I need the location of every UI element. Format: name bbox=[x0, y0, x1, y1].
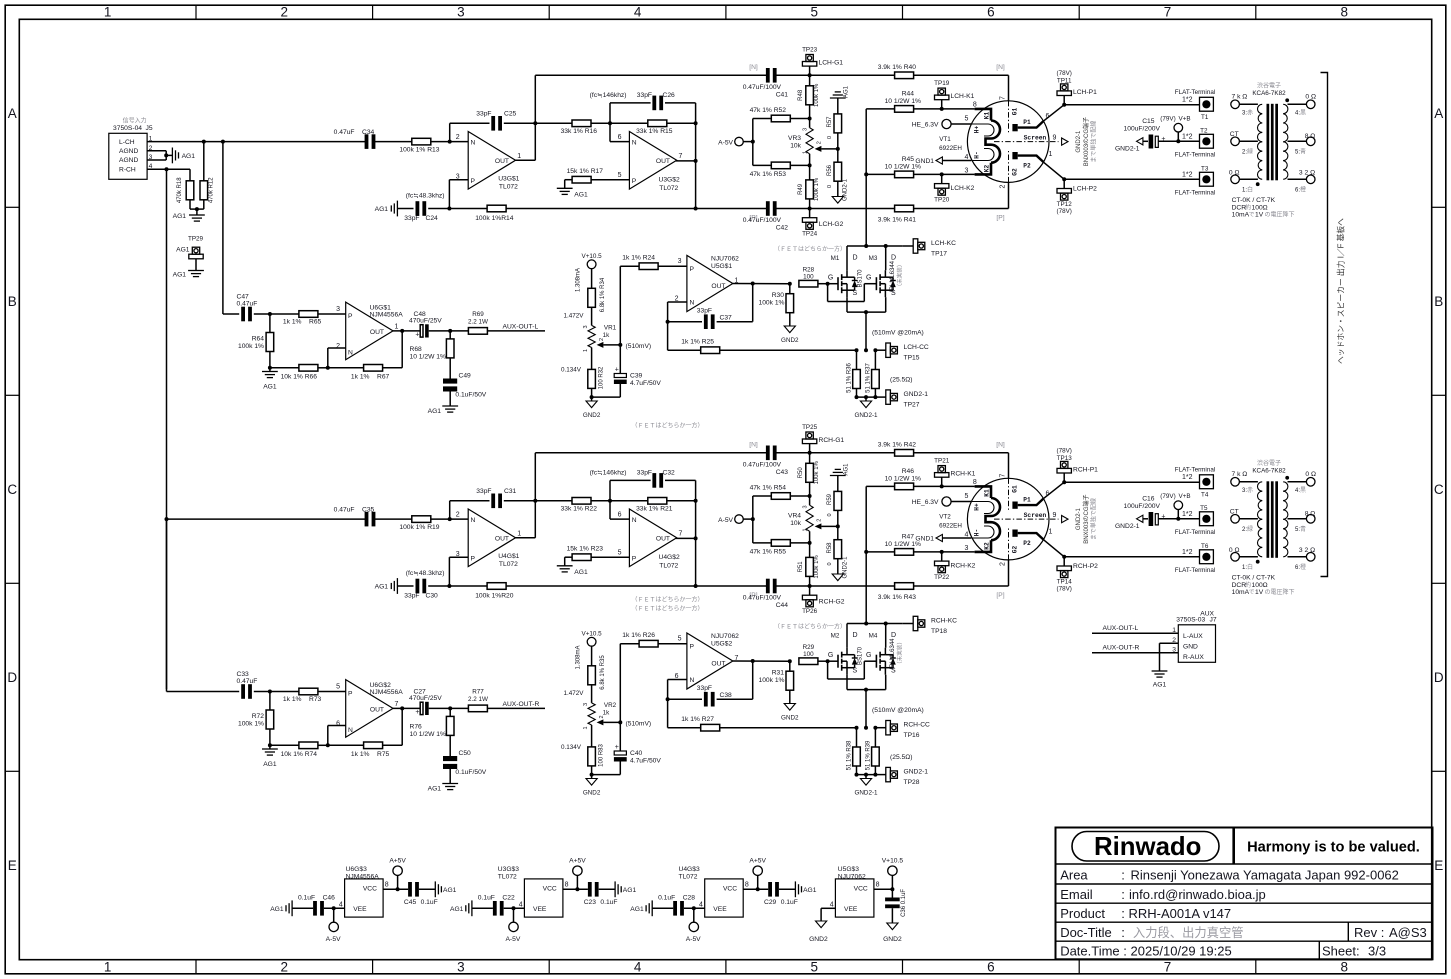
svg-text:R77: R77 bbox=[472, 688, 484, 695]
svg-text:GND1: GND1 bbox=[915, 536, 934, 543]
svg-text:0.47uF/100V: 0.47uF/100V bbox=[743, 84, 782, 91]
svg-text:RCH-CC: RCH-CC bbox=[904, 722, 931, 729]
svg-text:LCH-KC: LCH-KC bbox=[931, 240, 956, 247]
wire NJU out bbox=[733, 282, 792, 286]
wire [P] rail bbox=[696, 182, 1009, 221]
svg-text:AG1: AG1 bbox=[623, 887, 637, 894]
resistor R41 3.9k bbox=[878, 205, 917, 223]
svg-text:Date.Time : 2025/10/29 19:25: Date.Time : 2025/10/29 19:25 bbox=[1060, 943, 1232, 958]
capacitor C37 33pF bbox=[668, 284, 753, 330]
ground GND2-1 bias bbox=[832, 556, 848, 581]
svg-text:T2: T2 bbox=[1200, 127, 1208, 134]
svg-text:6.8k 1% R35: 6.8k 1% R35 bbox=[600, 655, 606, 690]
resistor R27 1k feedback bbox=[668, 716, 857, 731]
svg-text:33pF: 33pF bbox=[637, 92, 652, 99]
svg-text:2: 2 bbox=[1000, 562, 1007, 566]
annotation FET either gray bbox=[774, 245, 846, 253]
svg-text:G: G bbox=[828, 652, 833, 659]
svg-text:1: 1 bbox=[1049, 529, 1053, 536]
svg-text:33pF: 33pF bbox=[637, 469, 652, 476]
resistor R37 51 bbox=[866, 350, 913, 397]
capacitor C30 33pF input gnd bbox=[375, 570, 487, 600]
svg-text:0: 0 bbox=[827, 136, 833, 139]
svg-text:ヘッドホン・スピーカー 出力 I／F 基板へ: ヘッドホン・スピーカー 出力 I／F 基板へ bbox=[1336, 218, 1346, 364]
svg-text:H+: H+ bbox=[974, 503, 981, 511]
svg-text:8: 8 bbox=[973, 479, 977, 486]
svg-text:1: 1 bbox=[583, 349, 589, 352]
svg-text:3: 3 bbox=[803, 505, 809, 508]
svg-text:0.1uF/50V: 0.1uF/50V bbox=[455, 391, 486, 398]
supply A-5V at U6G$3 bbox=[326, 908, 341, 943]
testpoint TP16 RCH-CC rail bbox=[855, 707, 931, 739]
ground GND2 left of U5G$3 bbox=[809, 908, 835, 943]
svg-text:N: N bbox=[471, 517, 476, 524]
svg-text:TP27: TP27 bbox=[904, 402, 920, 409]
wire opamp2 out to [P] rail bbox=[676, 501, 698, 588]
svg-text:M2: M2 bbox=[831, 633, 840, 640]
svg-text:7 k Ω: 7 k Ω bbox=[1232, 471, 1248, 478]
svg-text:: RRH-A001A v147: : RRH-A001A v147 bbox=[1121, 906, 1231, 921]
svg-text:BS170: BS170 bbox=[858, 646, 864, 665]
svg-text:8: 8 bbox=[876, 882, 880, 889]
svg-text:A-5V: A-5V bbox=[326, 936, 341, 943]
svg-text:VR3: VR3 bbox=[788, 135, 801, 142]
svg-text:C36 0.1uF: C36 0.1uF bbox=[901, 889, 907, 917]
svg-text:OUT: OUT bbox=[370, 707, 384, 714]
svg-text:P: P bbox=[632, 556, 637, 563]
svg-text:8: 8 bbox=[973, 101, 977, 108]
wire J5 pins 2,3 to AG1 bbox=[147, 151, 172, 160]
svg-text:2: 2 bbox=[1000, 184, 1007, 188]
svg-text:OUT: OUT bbox=[711, 661, 725, 668]
svg-text:(79V): (79V) bbox=[1160, 493, 1175, 500]
resistor R48 100k bbox=[798, 75, 820, 120]
ground GND2 right of U5G$3 bbox=[883, 923, 902, 943]
title block bbox=[1056, 828, 1433, 960]
svg-text:+: + bbox=[615, 366, 619, 373]
svg-text:100k 1%: 100k 1% bbox=[238, 721, 264, 728]
svg-text:0.47uF/100V: 0.47uF/100V bbox=[743, 595, 782, 602]
svg-text:A: A bbox=[8, 106, 17, 121]
svg-text:TL072: TL072 bbox=[499, 184, 518, 191]
svg-text:GND2: GND2 bbox=[781, 715, 799, 722]
svg-text:8: 8 bbox=[385, 882, 389, 889]
svg-text:AG1: AG1 bbox=[450, 906, 464, 913]
supply A-5V bias bbox=[718, 119, 755, 166]
resistor R49 100k bbox=[798, 165, 820, 208]
svg-text:FLAT-Terminal: FLAT-Terminal bbox=[1175, 190, 1215, 197]
svg-text:AG1: AG1 bbox=[263, 384, 277, 391]
svg-text:TL072: TL072 bbox=[679, 873, 698, 880]
svg-text:7: 7 bbox=[1000, 473, 1007, 477]
testpoint TP15 LCH-CC rail bbox=[855, 330, 929, 362]
svg-text:R56: R56 bbox=[827, 164, 833, 176]
svg-text:100Ω: 100Ω bbox=[1252, 204, 1268, 211]
svg-text:0 Ω: 0 Ω bbox=[1305, 94, 1316, 101]
resistor R19 100k bbox=[399, 516, 439, 531]
title block text rows bbox=[1060, 868, 1427, 959]
wire gate jog M1-M3 bbox=[828, 661, 866, 679]
svg-text:N: N bbox=[348, 727, 353, 734]
svg-text:0: 0 bbox=[827, 513, 833, 516]
svg-text:1: 1 bbox=[1049, 151, 1053, 158]
testpoint TP27 GND2-1 bbox=[855, 390, 929, 409]
svg-text:0.134V: 0.134V bbox=[561, 744, 582, 751]
supply A+5V at U4G$3 bbox=[743, 857, 768, 891]
transistor M2 BS170 bbox=[828, 632, 864, 675]
svg-text:TP22: TP22 bbox=[934, 574, 950, 581]
svg-text:1.472V: 1.472V bbox=[564, 313, 585, 320]
svg-text:3.9k 1% R43: 3.9k 1% R43 bbox=[878, 594, 917, 601]
svg-text:NJM4556A: NJM4556A bbox=[346, 873, 380, 880]
testpoint TP28 GND2-1 bbox=[855, 767, 929, 786]
svg-text:+: + bbox=[615, 744, 619, 751]
svg-text:M3: M3 bbox=[869, 255, 878, 262]
svg-text:TP13: TP13 bbox=[1057, 455, 1073, 462]
svg-text:(fc≒146khz): (fc≒146khz) bbox=[590, 470, 627, 477]
svg-text:10 1/2W 1%: 10 1/2W 1% bbox=[410, 731, 446, 738]
svg-text:100k 1%: 100k 1% bbox=[814, 460, 820, 484]
svg-text:100 R83: 100 R83 bbox=[598, 743, 604, 766]
ground AG1 aux bbox=[262, 368, 278, 391]
svg-text:N: N bbox=[690, 677, 695, 684]
svg-text:GND2-1: GND2-1 bbox=[1076, 507, 1082, 530]
op-amp U5G$1 NJU7062 bbox=[675, 255, 740, 311]
svg-text:P1: P1 bbox=[1023, 119, 1031, 126]
svg-text:RCH-K2: RCH-K2 bbox=[951, 563, 976, 570]
svg-text:3: 3 bbox=[583, 325, 589, 328]
svg-text:9: 9 bbox=[1053, 134, 1057, 141]
wire J5 pin4 R-CH down-rail bbox=[147, 167, 190, 689]
resistor R44 10 1/2W bbox=[866, 91, 974, 113]
svg-text:VR2: VR2 bbox=[604, 702, 617, 709]
svg-text:NJM4556A: NJM4556A bbox=[370, 311, 404, 318]
svg-text:470uF/25V: 470uF/25V bbox=[409, 695, 442, 702]
svg-text:0.47uF: 0.47uF bbox=[237, 678, 258, 685]
capacitor C33 0.47uF aux bbox=[167, 519, 272, 699]
testpoint TP22 RCH-K2 bbox=[934, 552, 976, 581]
svg-text:0.47uF/100V: 0.47uF/100V bbox=[743, 462, 782, 469]
svg-text:橙: 橙 bbox=[1300, 186, 1306, 194]
testpoint TP18 RCH-KC bbox=[903, 616, 957, 635]
svg-text:BS170: BS170 bbox=[858, 269, 864, 288]
resistor R14 100k feedback bbox=[475, 205, 695, 222]
svg-text:（ＦＥＴはどちらか一方）: （ＦＥＴはどちらか一方） bbox=[631, 605, 703, 613]
svg-text:TP23: TP23 bbox=[802, 46, 818, 53]
svg-text:2.2 1W: 2.2 1W bbox=[468, 696, 488, 703]
testpoint TP11 LCH-P1 bbox=[1056, 70, 1097, 105]
svg-text:N: N bbox=[471, 139, 476, 146]
testpoint TP23 LCH-G1 bbox=[802, 46, 843, 75]
svg-text:1: 1 bbox=[104, 960, 112, 975]
op-amp U3G$1 TL072 bbox=[456, 132, 522, 191]
svg-text:1k 1% R27: 1k 1% R27 bbox=[681, 716, 714, 723]
svg-text:33pF: 33pF bbox=[476, 488, 491, 495]
svg-text:BNX003のCG端子: BNX003のCG端子 bbox=[1082, 117, 1090, 166]
svg-text:R28: R28 bbox=[803, 267, 815, 274]
resistor R34 6.8k bbox=[564, 268, 606, 325]
svg-text:GND2-1: GND2-1 bbox=[1115, 146, 1140, 153]
wire input rail to C35 bbox=[167, 517, 469, 521]
svg-text:100k 1%R14: 100k 1%R14 bbox=[475, 215, 514, 222]
svg-text:1*2: 1*2 bbox=[1182, 172, 1193, 179]
testpoint TP25 RCH-G1 bbox=[802, 424, 844, 453]
svg-text:3.9k 1% R42: 3.9k 1% R42 bbox=[878, 441, 917, 448]
svg-text:8: 8 bbox=[1340, 960, 1348, 975]
ground AG1 right of U4G$3 bbox=[795, 881, 816, 897]
svg-text:緑: 緑 bbox=[1247, 148, 1253, 156]
svg-text:1*2: 1*2 bbox=[1182, 134, 1193, 141]
svg-text:入力段、出力真空管: 入力段、出力真空管 bbox=[1133, 925, 1244, 940]
svg-text:0.1uF/50V: 0.1uF/50V bbox=[455, 769, 486, 776]
svg-text:1k 1% R24: 1k 1% R24 bbox=[622, 255, 655, 262]
svg-text:5: 5 bbox=[964, 116, 968, 123]
svg-text:FLAT-Terminal: FLAT-Terminal bbox=[1175, 466, 1215, 473]
svg-text:7: 7 bbox=[395, 701, 399, 708]
wire opamp1 P input jog bbox=[447, 557, 468, 588]
svg-text:0 Ω: 0 Ω bbox=[1229, 170, 1240, 177]
svg-text:T1: T1 bbox=[1201, 114, 1209, 121]
transistor M4 IRLML6344 bbox=[866, 632, 904, 675]
svg-text:U4G$2: U4G$2 bbox=[659, 554, 680, 561]
svg-text:1: 1 bbox=[583, 726, 589, 729]
svg-text:HE_6.3V: HE_6.3V bbox=[912, 122, 939, 129]
svg-text:(fc≒146khz): (fc≒146khz) bbox=[590, 92, 627, 99]
svg-text:100k 1%: 100k 1% bbox=[814, 83, 820, 107]
svg-text:NJM4556A: NJM4556A bbox=[370, 689, 404, 696]
bracket headphone speaker output IF bbox=[1321, 73, 1346, 577]
svg-text:4: 4 bbox=[964, 154, 968, 161]
svg-text:H-: H- bbox=[974, 529, 981, 536]
svg-text:C41: C41 bbox=[776, 92, 789, 99]
svg-text:赤: 赤 bbox=[1247, 487, 1253, 494]
svg-text:6.8k 1% R34: 6.8k 1% R34 bbox=[600, 277, 606, 312]
resistor R74 10k bbox=[270, 742, 330, 758]
resistor R23 15k to AG1 bbox=[557, 545, 630, 576]
resistor R53 47k bbox=[750, 162, 810, 178]
svg-text:U5G$3: U5G$3 bbox=[838, 866, 859, 873]
terminal T6 FLAT bbox=[1064, 543, 1215, 574]
svg-text:GND2-1: GND2-1 bbox=[1115, 523, 1140, 530]
svg-text:2: 2 bbox=[817, 141, 823, 144]
svg-text:E: E bbox=[8, 858, 17, 873]
wire [P] rail bbox=[696, 560, 1009, 599]
supply V+B 79V bbox=[1160, 493, 1190, 519]
svg-text:VR4: VR4 bbox=[788, 513, 801, 520]
svg-text:1: 1 bbox=[517, 153, 521, 160]
testpoint TP14 RCH-P2 bbox=[1056, 557, 1098, 593]
resistor R31 100k bbox=[758, 661, 799, 721]
svg-text:R47: R47 bbox=[902, 534, 915, 541]
svg-text:AG1: AG1 bbox=[428, 408, 442, 415]
wire plate P1 to TP13 bbox=[1044, 480, 1066, 498]
svg-text:U6G$3: U6G$3 bbox=[346, 866, 367, 873]
svg-text:U4G$1: U4G$1 bbox=[498, 553, 519, 560]
svg-text:Sheet:: Sheet: bbox=[1322, 943, 1360, 958]
wire opamp1 P input jog bbox=[447, 180, 468, 211]
svg-text:2: 2 bbox=[281, 4, 289, 19]
resistor R77 2.2 1W bbox=[450, 688, 545, 711]
svg-text:5: 5 bbox=[618, 172, 622, 179]
svg-text:[N]: [N] bbox=[749, 64, 758, 71]
svg-text:100uF/200V: 100uF/200V bbox=[1124, 503, 1161, 510]
svg-text:3: 3 bbox=[457, 960, 465, 975]
svg-text:GND2-1: GND2-1 bbox=[854, 412, 878, 419]
wire source rail bbox=[847, 297, 886, 350]
capacitor C39 4.7uF/50V bbox=[614, 345, 661, 397]
svg-text:渋谷電子: 渋谷電子 bbox=[1257, 82, 1281, 90]
svg-text:1k 1%: 1k 1% bbox=[351, 374, 370, 381]
svg-text:GND2: GND2 bbox=[809, 936, 828, 943]
svg-text:C47: C47 bbox=[237, 293, 250, 300]
svg-text:L-CH: L-CH bbox=[119, 139, 135, 146]
svg-text:(79V): (79V) bbox=[1160, 116, 1175, 123]
svg-text:CT: CT bbox=[1230, 508, 1239, 515]
svg-text:AUX-OUT-L: AUX-OUT-L bbox=[503, 324, 539, 331]
wire [N] rail bbox=[535, 64, 1008, 101]
resistor R18 470k bbox=[177, 177, 194, 203]
transformer KCA6-7K82 RCH bbox=[1229, 459, 1316, 596]
svg-text:AUX-OUT-R: AUX-OUT-R bbox=[1103, 644, 1140, 651]
svg-text:TP12: TP12 bbox=[1057, 201, 1073, 208]
svg-text:（ＦＥＴはどちらか一方）: （ＦＥＴはどちらか一方） bbox=[774, 245, 846, 253]
svg-text:6: 6 bbox=[618, 512, 622, 519]
svg-text:P2: P2 bbox=[1023, 540, 1031, 547]
wire plate P1 to TP11 bbox=[1044, 103, 1066, 121]
svg-text:で: で bbox=[1249, 589, 1255, 596]
capacitor C24 33pF input gnd bbox=[375, 192, 487, 222]
ground AG1 left of U4G$3 bbox=[630, 900, 652, 916]
resistor R54 47k bbox=[750, 485, 810, 500]
svg-text:白: 白 bbox=[1247, 186, 1253, 194]
op-amp supply block U3G$3 TL072 bbox=[498, 866, 569, 917]
svg-text:TP15: TP15 bbox=[904, 355, 920, 362]
svg-text:1k 1% R26: 1k 1% R26 bbox=[622, 632, 655, 639]
wire plate P2 to TP14 bbox=[1044, 540, 1066, 559]
transformer KCA6-7K82 LCH bbox=[1229, 82, 1316, 219]
svg-text:3/3: 3/3 bbox=[1368, 943, 1386, 958]
testpoint TP13 RCH-P1 bbox=[1056, 448, 1098, 483]
svg-text:0 Ω: 0 Ω bbox=[1229, 547, 1240, 554]
svg-text:0: 0 bbox=[827, 562, 833, 565]
terminal T5 FLAT bbox=[1175, 505, 1215, 536]
resistor R76 10 1/2W bbox=[410, 708, 455, 756]
capacitor C36 0.1uF bbox=[885, 889, 907, 923]
svg-text:赤: 赤 bbox=[1247, 110, 1253, 117]
svg-text:10k: 10k bbox=[790, 520, 801, 527]
svg-text:R72: R72 bbox=[252, 713, 265, 720]
svg-text:47k 1% R55: 47k 1% R55 bbox=[750, 549, 787, 556]
svg-text:NJU7062: NJU7062 bbox=[711, 633, 739, 640]
capacitor C29 0.1uF bbox=[764, 882, 798, 906]
svg-text:100k 1%: 100k 1% bbox=[758, 300, 784, 307]
svg-text:TP17: TP17 bbox=[931, 251, 947, 258]
svg-text:AG1: AG1 bbox=[443, 887, 457, 894]
svg-text:TP21: TP21 bbox=[934, 458, 950, 465]
svg-text:8: 8 bbox=[565, 882, 569, 889]
op-amp U6G$2 NJM4556A bbox=[336, 680, 403, 738]
svg-text:1.308mA: 1.308mA bbox=[576, 645, 582, 669]
svg-text:1k 1% R25: 1k 1% R25 bbox=[681, 339, 714, 346]
tube VT2 6922EH bbox=[939, 473, 1068, 566]
svg-text:2: 2 bbox=[599, 338, 605, 341]
transistor M1 BS170 bbox=[828, 255, 864, 298]
svg-text:GND1: GND1 bbox=[915, 158, 934, 165]
svg-text:KCA6-7K82: KCA6-7K82 bbox=[1252, 468, 1286, 475]
svg-text:(78V): (78V) bbox=[1056, 448, 1071, 455]
svg-text:TP26: TP26 bbox=[802, 608, 818, 615]
op-amp U6G$1 NJM4556A bbox=[336, 302, 403, 360]
svg-text:Doc-Title: Doc-Title bbox=[1060, 925, 1112, 940]
svg-text:100Ω: 100Ω bbox=[1252, 582, 1268, 589]
svg-text:0.1uF: 0.1uF bbox=[600, 899, 617, 906]
svg-text:G: G bbox=[828, 275, 833, 282]
svg-text:AG1: AG1 bbox=[630, 906, 644, 913]
svg-text:AGND: AGND bbox=[119, 148, 138, 155]
svg-text:5: 5 bbox=[964, 493, 968, 500]
svg-text:C42: C42 bbox=[776, 225, 789, 232]
svg-text:N: N bbox=[348, 350, 353, 357]
svg-text:0.1uF: 0.1uF bbox=[658, 895, 675, 902]
svg-text:G2: G2 bbox=[1012, 546, 1019, 554]
svg-text:（ＦＥＴはどちらか一方）: （ＦＥＴはどちらか一方） bbox=[631, 596, 703, 604]
svg-text:4: 4 bbox=[830, 901, 834, 908]
svg-text:VCC: VCC bbox=[723, 886, 737, 893]
capacitor C15 100uF/200V bbox=[1115, 118, 1200, 153]
svg-text:C35: C35 bbox=[362, 507, 375, 514]
wire NJU N jog bbox=[666, 680, 687, 728]
svg-text:R76: R76 bbox=[410, 724, 423, 731]
svg-text:CT-0K / CT-7K: CT-0K / CT-7K bbox=[1232, 197, 1276, 204]
svg-text:J5: J5 bbox=[146, 125, 153, 132]
svg-text:P: P bbox=[348, 313, 353, 320]
svg-text:R73: R73 bbox=[309, 696, 322, 703]
svg-text:(510mV): (510mV) bbox=[626, 720, 652, 727]
svg-text:51 1% R38: 51 1% R38 bbox=[847, 740, 853, 770]
svg-text:C22: C22 bbox=[502, 895, 515, 902]
svg-text:D: D bbox=[853, 632, 858, 639]
svg-text:10 1/2W 1%: 10 1/2W 1% bbox=[410, 353, 446, 360]
svg-text:橙: 橙 bbox=[1300, 563, 1306, 571]
svg-text:AG1: AG1 bbox=[574, 192, 588, 199]
svg-text:1V: 1V bbox=[1255, 589, 1264, 596]
svg-text:VCC: VCC bbox=[363, 886, 377, 893]
svg-text:2: 2 bbox=[456, 512, 460, 519]
svg-text:OUT: OUT bbox=[495, 158, 509, 165]
svg-text:100k 1%: 100k 1% bbox=[814, 555, 820, 579]
svg-text:3750S-03: 3750S-03 bbox=[1176, 617, 1205, 624]
resistor R42 3.9k bbox=[878, 441, 917, 456]
resistor R59 bbox=[827, 463, 850, 529]
svg-text:A@S3: A@S3 bbox=[1389, 925, 1427, 940]
svg-text:AG1: AG1 bbox=[844, 85, 850, 98]
resistor R38 51 bbox=[847, 728, 861, 775]
resistor R45 10 1/2W bbox=[864, 156, 974, 178]
svg-text:0 Ω: 0 Ω bbox=[1305, 471, 1316, 478]
svg-text:6: 6 bbox=[336, 721, 340, 728]
capacitor C34 0.47uF bbox=[334, 129, 376, 149]
svg-text:A: A bbox=[1434, 106, 1443, 121]
svg-text:AGND: AGND bbox=[119, 157, 138, 164]
svg-text:C26: C26 bbox=[663, 92, 676, 99]
svg-text:TP19: TP19 bbox=[934, 80, 950, 87]
svg-text:G: G bbox=[866, 652, 871, 659]
svg-text:15k 1% R23: 15k 1% R23 bbox=[567, 545, 604, 552]
resistor R47 10 1/2W bbox=[864, 534, 974, 556]
svg-text:U3G$2: U3G$2 bbox=[659, 177, 680, 184]
svg-text:渋谷電子: 渋谷電子 bbox=[1257, 459, 1281, 467]
svg-text:TL072: TL072 bbox=[659, 185, 678, 192]
